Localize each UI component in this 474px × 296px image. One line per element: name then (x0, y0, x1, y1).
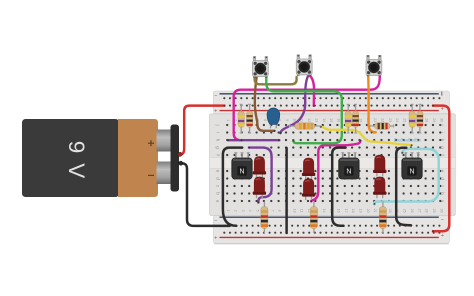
bottom red rail line (220, 236, 439, 238)
svg-text:17: 17 (344, 209, 348, 213)
board bottom shadow (214, 243, 449, 244)
black wire C: row g col9 to bottom rail (285, 148, 288, 233)
svg-text:8: 8 (278, 210, 282, 212)
svg-text:h: h (214, 139, 220, 142)
svg-text:16: 16 (336, 118, 340, 122)
breadboard body (210, 91, 456, 244)
battery - connector dot (179, 161, 183, 165)
bottom blue rail line (220, 216, 439, 218)
resistor R3 (horizontal, row j) (289, 123, 320, 129)
svg-text:15: 15 (329, 118, 333, 122)
black wire E: row g col24 to bottom - rail (396, 148, 411, 226)
rail sign marks (214, 94, 217, 100)
svg-text:28: 28 (425, 118, 429, 122)
svg-text:−: − (214, 218, 217, 224)
svg-text:19: 19 (359, 118, 363, 122)
transistor Q2 (NPN) (339, 153, 359, 179)
top blue rail line (220, 93, 439, 95)
svg-text:2: 2 (234, 210, 238, 212)
cyan wire row a col20 to row f col24 (374, 149, 438, 204)
black wire B: row g col3 to bottom - rail (223, 148, 242, 226)
LED D6 (red) (373, 177, 386, 199)
svg-text:13: 13 (314, 118, 318, 122)
column numbers (226, 118, 443, 212)
resistor R8 (vertical, row a to - rail) (310, 201, 317, 233)
svg-text:23: 23 (388, 118, 392, 122)
svg-text:22: 22 (381, 118, 385, 122)
battery + connector dot (178, 152, 182, 156)
svg-text:24: 24 (395, 118, 399, 122)
transistor Q3 (NPN) (402, 153, 422, 179)
svg-text:21: 21 (373, 209, 377, 213)
svg-text:1: 1 (226, 119, 230, 121)
top red rail line (220, 110, 439, 112)
capacitor C1 (disc, blue) (267, 108, 280, 128)
svg-text:+: + (441, 233, 444, 239)
LED D4 (red) (302, 178, 315, 200)
svg-text:27: 27 (417, 209, 421, 213)
svg-text:−: − (214, 94, 217, 100)
svg-text:N: N (239, 169, 244, 176)
svg-text:28: 28 (425, 209, 429, 213)
svg-text:N: N (346, 169, 351, 176)
svg-text:7: 7 (270, 210, 274, 212)
olive wire button1 to button2 (255, 77, 297, 85)
resistor R1 (vertical, + rail to row i) (238, 104, 244, 133)
svg-text:29: 29 (432, 118, 436, 122)
top rail slab (214, 91, 450, 114)
svg-text:30: 30 (439, 118, 443, 122)
purple wire P1: button2 down to row i col8 (280, 76, 308, 134)
svg-text:5: 5 (256, 210, 260, 212)
svg-text:29: 29 (432, 209, 436, 213)
magenta wire M2: button2 to top + rail (310, 76, 315, 106)
resistor R7 (horizontal, row j) (370, 123, 394, 129)
svg-text:g: g (439, 146, 444, 149)
center channel (210, 157, 455, 168)
purple wire P2 row h col1 to col8 (228, 139, 279, 141)
resistor R9 (vertical, + rail to row i) (409, 104, 415, 133)
resistor R2 (vertical, + rail to row i) (247, 104, 253, 133)
svg-text:3: 3 (241, 210, 245, 212)
svg-text:10: 10 (292, 209, 296, 213)
svg-text:j: j (214, 123, 220, 125)
red wire top + rail to bottom + rail (right side) (433, 106, 449, 232)
svg-text:e: e (214, 170, 219, 173)
svg-text:j: j (439, 123, 445, 125)
svg-text:g: g (214, 146, 219, 149)
resistor R5 (vertical, + rail to row i) (345, 104, 351, 133)
svg-text:a: a (439, 200, 444, 203)
svg-text:+: + (441, 107, 444, 113)
svg-text:9: 9 (285, 119, 289, 121)
LED D2 (red) (253, 177, 266, 199)
svg-text:26: 26 (410, 209, 414, 213)
svg-text:N: N (409, 169, 414, 176)
svg-text:h: h (439, 139, 445, 142)
plus sign on battery (148, 140, 154, 146)
svg-text:25: 25 (403, 118, 407, 122)
orange wire button3 to row i col20 (368, 75, 376, 132)
svg-text:+: + (214, 108, 217, 114)
green wire button1 to row h col14 (266, 77, 342, 144)
svg-text:19: 19 (359, 209, 363, 213)
black wire battery- to bottom - rail (181, 163, 230, 226)
svg-text:1: 1 (226, 210, 230, 212)
svg-text:d: d (214, 177, 220, 180)
red wire battery+ to top + rail (180, 106, 224, 155)
svg-text:BreBoaBodBo: BreBoaBodBo (394, 137, 421, 142)
svg-text:i: i (439, 132, 445, 133)
svg-text:b: b (214, 192, 220, 195)
pushbutton S3 (366, 55, 382, 76)
black wire D: row g col15 to bottom - rail (332, 148, 345, 226)
resistor R11 (vertical, row a to - rail) (379, 201, 386, 233)
transistor Q1 (NPN) (232, 153, 252, 179)
magenta wire M3: row h col19 to row a col12 (311, 141, 360, 202)
resistor R4 (vertical, row a to - rail) (261, 201, 268, 233)
terminal strip holes (226, 124, 441, 202)
svg-text:4: 4 (248, 210, 252, 212)
svg-text:14: 14 (322, 209, 326, 213)
svg-text:18: 18 (351, 209, 355, 213)
magenta wire button3 to row h col3 (234, 75, 380, 140)
row letters (214, 123, 445, 202)
svg-text:d: d (439, 177, 445, 180)
pushbutton S1 (253, 57, 269, 78)
svg-text:12: 12 (307, 118, 311, 122)
yellow wire row j col13 to row g col24 (321, 127, 412, 146)
svg-text:11: 11 (300, 209, 304, 213)
svg-text:i: i (214, 132, 220, 133)
svg-text:23: 23 (388, 209, 392, 213)
LED D1 (red) (253, 156, 266, 178)
purple wire P3: row g col4 down to row a col5 (249, 148, 272, 203)
wires layer (178, 75, 449, 233)
svg-text:16: 16 (336, 209, 340, 213)
main terminal slab (210, 114, 456, 216)
pushbutton S2 (296, 55, 312, 76)
LED D3 (red) (302, 158, 315, 180)
svg-text:+: + (214, 236, 217, 242)
wire end plugs (224, 105, 435, 234)
power rail holes (223, 97, 440, 234)
battery cap plate (171, 125, 180, 192)
svg-text:14: 14 (322, 118, 326, 122)
svg-text:30: 30 (439, 209, 443, 213)
LED D5 (red) (373, 155, 386, 177)
battery 9V (22, 119, 179, 197)
brown wire button1 to row i col5 (255, 77, 275, 131)
bottom rail slab (214, 215, 450, 243)
svg-text:6: 6 (263, 119, 267, 121)
minus sign on battery (148, 174, 154, 176)
resistor R10 (vertical, + rail to row i) (417, 104, 423, 133)
resistor R6 (vertical, + rail to row i) (353, 104, 359, 133)
battery - terminal cylinder (157, 162, 172, 185)
svg-text:−: − (441, 217, 444, 223)
svg-text:9V: 9V (64, 141, 89, 189)
svg-text:a: a (214, 200, 219, 203)
svg-text:21: 21 (373, 118, 377, 122)
svg-text:25: 25 (403, 209, 407, 213)
svg-text:20: 20 (366, 209, 370, 213)
svg-text:b: b (439, 192, 445, 195)
